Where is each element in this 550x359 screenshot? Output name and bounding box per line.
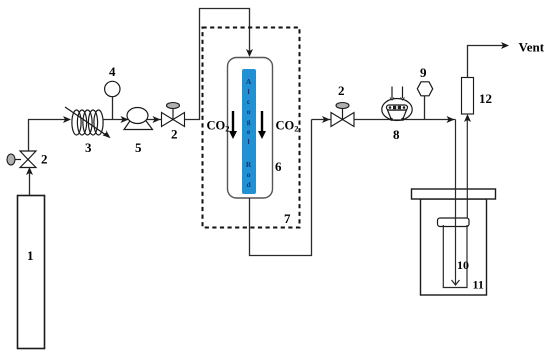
alcogel rod (blue) — [242, 69, 256, 194]
svg-text:l: l — [248, 87, 250, 96]
svg-text:2: 2 — [338, 83, 345, 98]
svg-text:o: o — [247, 170, 251, 179]
dip tube cap — [438, 218, 470, 227]
svg-text:7: 7 — [284, 211, 291, 226]
wire valve to separator junction with arrow — [354, 119, 456, 121]
valve 2 handle — [342, 109, 344, 120]
coil 3 (preheating coil) — [72, 110, 103, 135]
wire riser to valve with arrow — [312, 119, 332, 121]
svg-text:Vent: Vent — [519, 40, 545, 55]
svg-text:1: 1 — [27, 248, 34, 263]
svg-text:g: g — [247, 117, 251, 126]
svg-text:5: 5 — [135, 140, 142, 155]
svg-text:l: l — [248, 137, 250, 146]
alcogel rod vertical text — [246, 77, 252, 189]
coil 3 diagonal arrow — [65, 107, 108, 136]
svg-text:3: 3 — [85, 140, 92, 155]
wire valve over the top into vessel, with arrow — [185, 9, 250, 120]
svg-text:R: R — [246, 160, 252, 169]
CO2 flow arrow left (bold) — [232, 111, 234, 133]
svg-text:2: 2 — [171, 127, 178, 142]
vent line with arrow — [468, 46, 506, 78]
valve 2 (back pressure valve, bowtie) — [331, 113, 343, 127]
CO2 flow arrow right (bold) — [261, 111, 263, 133]
cylinder 1 (CO2 gas cylinder) — [18, 196, 45, 349]
valve 2 (cylinder valve, vertical bowtie) — [20, 151, 36, 160]
collection vessel 11 lid — [412, 189, 496, 199]
regulator 8 (wet gas meter) — [382, 87, 412, 121]
collection vessel 11 body — [421, 199, 487, 295]
pump 5 — [124, 120, 153, 130]
svg-text:12: 12 — [479, 91, 492, 106]
wire coil to pump — [103, 119, 161, 121]
arrow pump to valve — [153, 116, 161, 123]
valve 2 handle — [172, 109, 174, 120]
valve 2 (pump outlet valve, bowtie) — [162, 113, 174, 127]
svg-text:6: 6 — [275, 159, 282, 174]
gauge 9 (hexagon) — [424, 96, 426, 120]
svg-text:11: 11 — [473, 278, 484, 292]
vessel inlet pipe with down arrow — [455, 120, 457, 285]
vessel 6 (autoclave) — [228, 58, 273, 199]
wire vessel bottom to riser — [250, 120, 312, 256]
svg-text:8: 8 — [393, 127, 400, 142]
enclosure 7 (dashed oven boundary) — [203, 28, 300, 228]
dip tube walls and bottom — [443, 225, 467, 288]
svg-text:4: 4 — [109, 64, 116, 79]
wire valve up and right to coil, with arrow — [29, 120, 69, 152]
vessel outlet pipe with up arrow to rotameter — [466, 116, 468, 218]
svg-text:o: o — [247, 107, 251, 116]
wire cylinder to valve with arrow — [29, 172, 31, 195]
svg-text:10: 10 — [457, 258, 469, 272]
gauge 4 (pressure gauge) — [112, 97, 114, 120]
svg-text:9: 9 — [420, 65, 427, 80]
svg-text:A: A — [246, 77, 252, 86]
valve 2 handle ellipse — [14, 159, 21, 161]
rotameter 12 — [462, 78, 474, 115]
svg-text:2: 2 — [41, 152, 48, 167]
